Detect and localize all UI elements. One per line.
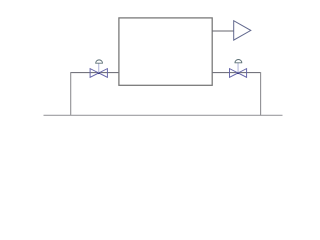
wire bottom header	[44, 114, 283, 116]
valve V2 bowtie	[230, 69, 247, 78]
process box	[119, 18, 212, 85]
triangle output symbol	[234, 21, 251, 40]
valve V1 bowtie	[90, 69, 107, 78]
valve V1 stem	[98, 63, 100, 73]
wire box to triangle	[212, 30, 234, 32]
valve V2 center junction	[237, 72, 239, 74]
wire left riser	[70, 72, 72, 115]
valve V1 center junction	[98, 72, 100, 74]
wire right riser	[260, 72, 262, 115]
valve V2 actuator dome	[235, 60, 243, 63]
valve V1 actuator dome	[95, 60, 103, 63]
valve V2 stem	[237, 63, 239, 73]
wire right pipe	[212, 72, 260, 74]
wire left pipe	[71, 72, 119, 74]
